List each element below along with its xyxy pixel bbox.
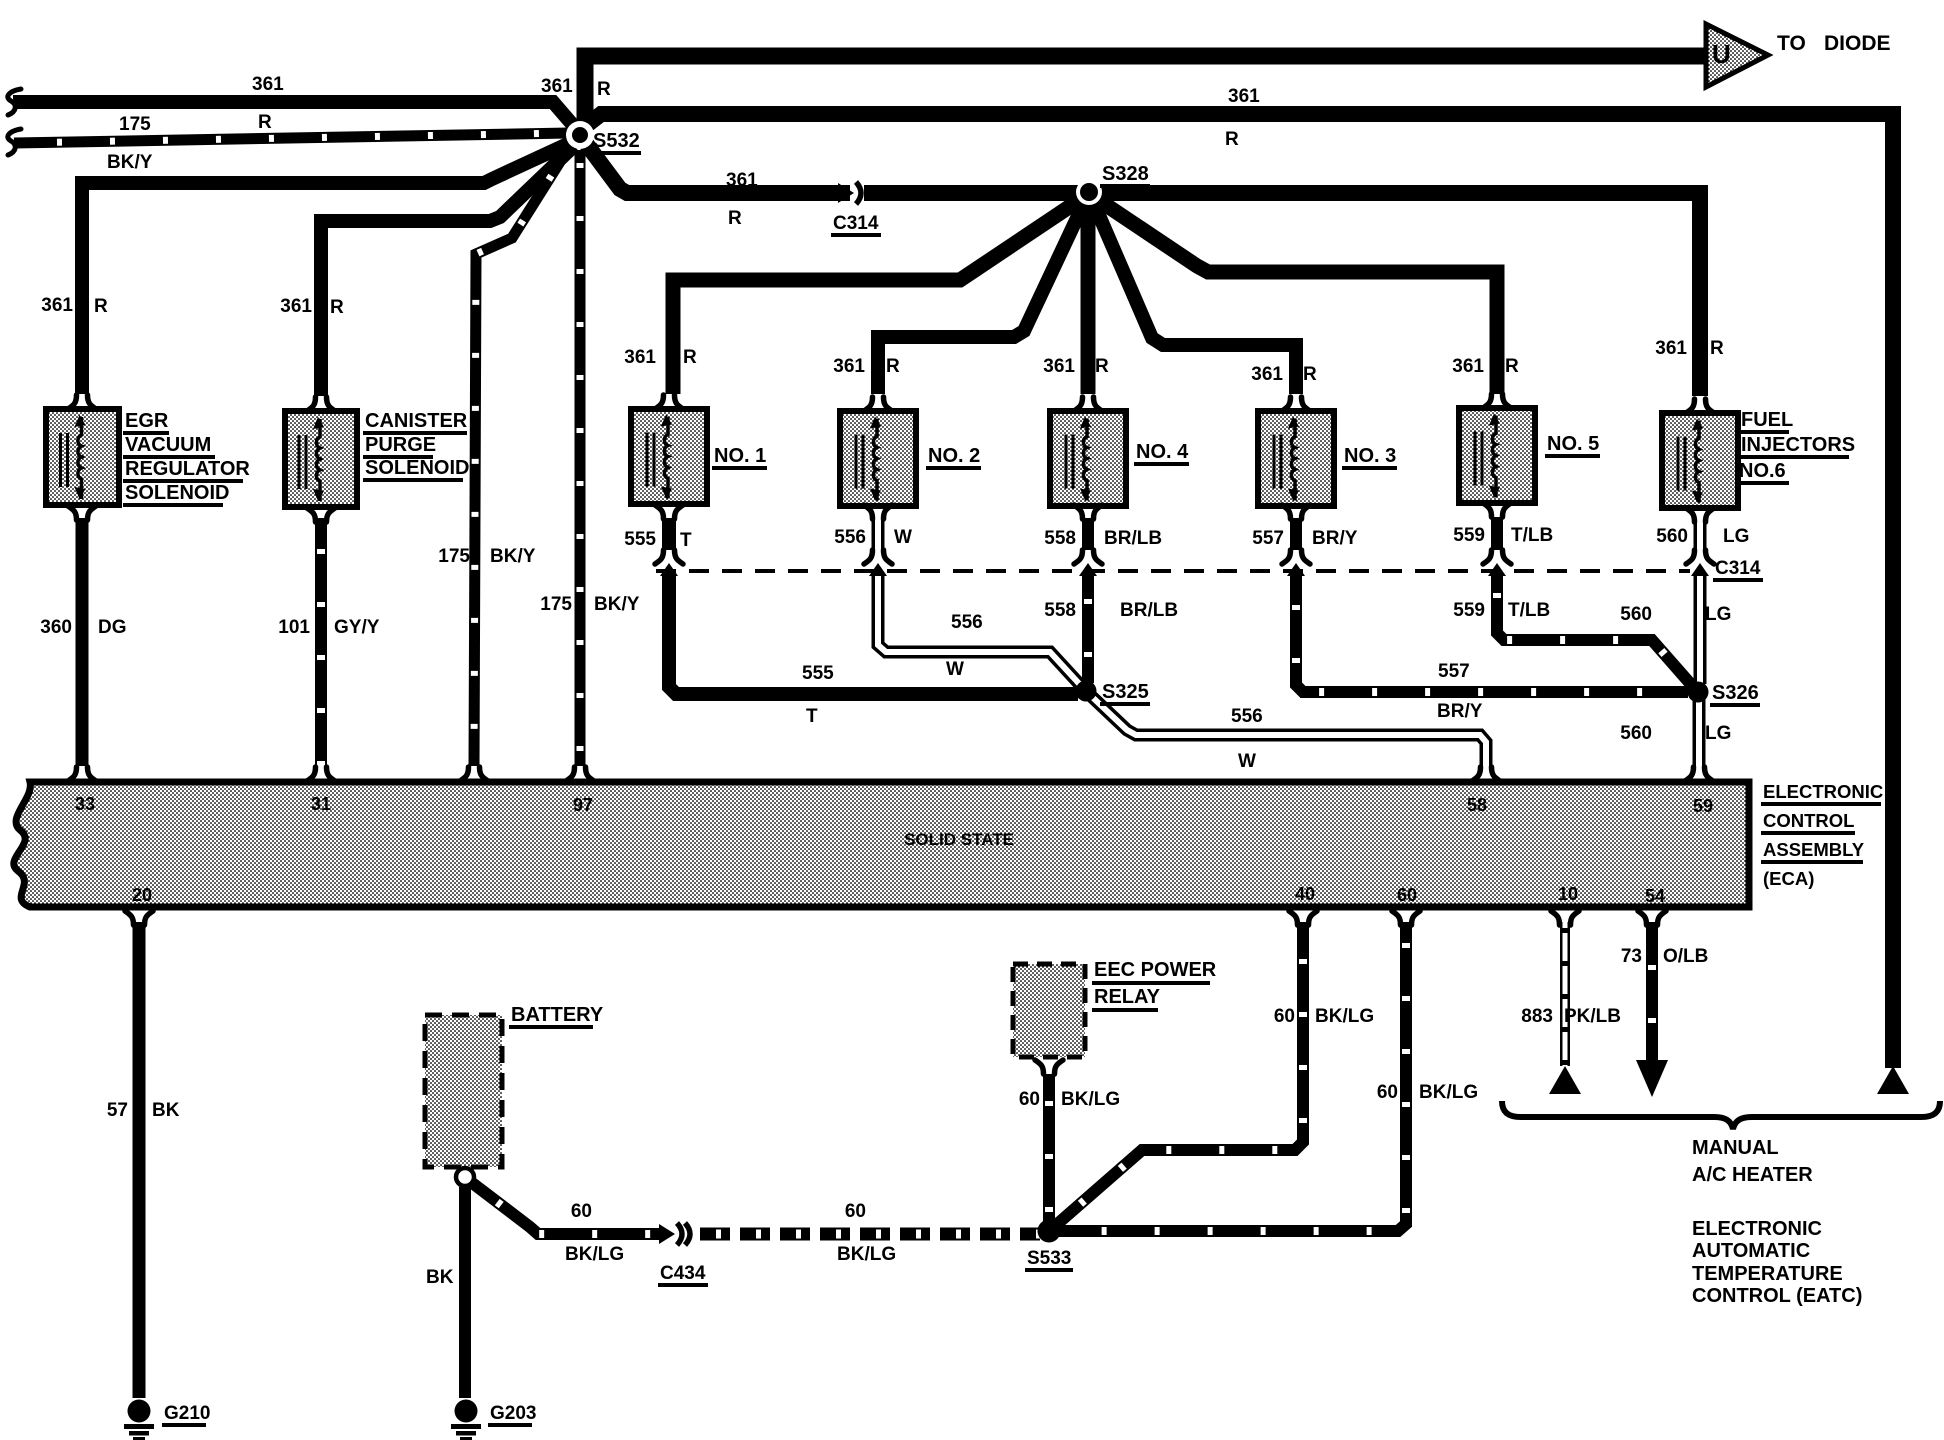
wire 361 R branch S532 to canister purge solenoid: [321, 146, 574, 396]
connector C434: [659, 1222, 690, 1246]
labels 361 R left feed: [252, 74, 284, 133]
labels 175 BK/Y on second branch: [540, 594, 639, 615]
svg-text:175: 175: [438, 546, 470, 567]
label EEC POWER RELAY: [1092, 959, 1217, 1012]
wire 60 BK/LG from ECA pin 40 to splice S533: [1055, 922, 1303, 1226]
wire 557 BR/Y upper segment below injector no.3: [1290, 518, 1302, 550]
svg-text:59: 59: [1693, 796, 1713, 816]
connector fork below EEC power relay: [1035, 1060, 1063, 1074]
svg-text:557: 557: [1252, 528, 1284, 549]
svg-text:556: 556: [1231, 706, 1263, 727]
connector fork below canister purge solenoid: [307, 508, 335, 522]
svg-text:G203: G203: [490, 1403, 536, 1424]
fuel injector no.2: [840, 411, 916, 506]
svg-text:S533: S533: [1027, 1248, 1071, 1269]
labels 555 T at injector no.1: [624, 529, 692, 551]
wire 175 BK/Y second branch from S532 straight down to ECA pin 97: [575, 150, 586, 766]
fuel injector no.1: [631, 409, 707, 504]
svg-text:361: 361: [624, 347, 656, 368]
svg-text:BK: BK: [426, 1267, 454, 1288]
labels 60 BK/LG battery segment: [565, 1201, 624, 1265]
wire 57 BK from ECA pin 20 to ground G210: [133, 922, 146, 1398]
svg-text:S532: S532: [593, 130, 640, 152]
labels 558 BR/LB on lower segment: [1044, 600, 1178, 621]
wire 560 LG from connector C314 down to splice S326: [1694, 576, 1707, 684]
svg-text:361: 361: [726, 170, 758, 191]
svg-text:W: W: [946, 659, 964, 680]
svg-text:560: 560: [1620, 604, 1652, 625]
wire 556 W upper segment below injector no.2: [872, 518, 885, 550]
svg-text:R: R: [258, 112, 272, 133]
svg-text:54: 54: [1645, 886, 1665, 906]
wire 361 R branch S328 straight down to injector no.4: [1081, 200, 1096, 394]
svg-text:40: 40: [1295, 884, 1315, 904]
svg-text:NO. 1: NO. 1: [714, 445, 766, 467]
labels 60 BK/LG at pin 40: [1274, 1006, 1374, 1027]
labels 361 R right trunk: [1225, 86, 1260, 150]
wire 556 W from connector down to splice S325: [878, 576, 1084, 689]
label NO. 3: [1342, 445, 1397, 470]
label NO. 5: [1545, 433, 1600, 458]
svg-text:S328: S328: [1102, 163, 1149, 185]
svg-text:BR/Y: BR/Y: [1437, 701, 1483, 722]
svg-text:559: 559: [1453, 600, 1485, 621]
svg-text:560: 560: [1656, 526, 1688, 547]
labels 361 R at canister feed: [280, 296, 344, 318]
arrowhead at bottom of 73 wire: [1636, 1060, 1668, 1097]
label CANISTER PURGE SOLENOID: [363, 410, 469, 482]
svg-text:T/LB: T/LB: [1511, 525, 1553, 546]
labels 175 BK/Y on first branch: [438, 546, 535, 567]
labels 101 GY/Y: [278, 617, 379, 638]
wire 361 R branch S328 to injector no.1: [673, 197, 1084, 394]
svg-text:557: 557: [1438, 661, 1470, 682]
inline connector C314 on wire 560: [1686, 550, 1714, 576]
labels 60 BK/LG dashed segment: [837, 1201, 896, 1265]
splice node S326: [1688, 682, 1709, 703]
label NO. 4: [1134, 441, 1189, 466]
svg-text:W: W: [1238, 751, 1256, 772]
svg-text:R: R: [1710, 338, 1724, 359]
svg-text:175: 175: [119, 114, 151, 135]
wire 361 R branch S532 to EGR solenoid: [82, 142, 572, 394]
connector triangle at bottom of 883 wire: [1549, 1066, 1581, 1094]
connector fork below injector no.4: [1074, 505, 1102, 519]
connector triangle at bottom of right 361 wire: [1877, 1066, 1909, 1094]
labels 361 R at injector no.1 feed: [624, 347, 697, 368]
svg-text:10: 10: [1558, 884, 1578, 904]
label S532: [591, 130, 641, 155]
svg-text:NO. 2: NO. 2: [928, 445, 980, 467]
wire 360 DG from EGR solenoid to ECA pin 33: [76, 518, 89, 766]
inline connector C314 on wire 557: [1282, 550, 1310, 576]
svg-text:LG: LG: [1723, 526, 1749, 547]
labels 559 T/LB at injector no.5: [1453, 525, 1553, 546]
connector fork at ECA bottom pin 54: [1638, 911, 1666, 925]
svg-text:SOLENOID: SOLENOID: [365, 457, 469, 479]
svg-text:60: 60: [1377, 1082, 1398, 1103]
svg-text:560: 560: [1620, 723, 1652, 744]
label S328: [1100, 163, 1150, 188]
ECA pin numbers bottom row: [132, 884, 1665, 906]
label NO. 1: [712, 445, 767, 470]
svg-text:BR/LB: BR/LB: [1120, 600, 1178, 621]
labels 555 T on horizontal run: [802, 663, 834, 727]
svg-text:EGR: EGR: [125, 410, 169, 432]
svg-text:361: 361: [833, 356, 865, 377]
label C314 on trunk: [831, 213, 881, 237]
svg-text:58: 58: [1467, 795, 1487, 815]
wire 361 R branch S328 to injector no.3: [1092, 199, 1296, 394]
svg-text:C314: C314: [833, 213, 879, 234]
svg-text:BK/LG: BK/LG: [1419, 1082, 1478, 1103]
svg-text:BATTERY: BATTERY: [511, 1004, 604, 1026]
svg-text:LG: LG: [1705, 604, 1731, 625]
labels 361 R at EGR feed: [41, 295, 108, 317]
svg-text:20: 20: [132, 885, 152, 905]
svg-text:(ECA): (ECA): [1763, 868, 1814, 889]
connector fork above EGR solenoid: [68, 395, 96, 409]
labels 557 BR/Y at injector no.3: [1252, 528, 1357, 549]
labels 60 BK/LG at pin 60: [1377, 1082, 1478, 1103]
fuel injector no.4: [1050, 411, 1126, 506]
svg-text:57: 57: [107, 1100, 128, 1121]
svg-text:TO: TO: [1777, 32, 1806, 55]
curl at left end of 175 wire: [8, 129, 21, 155]
svg-text:AUTOMATIC: AUTOMATIC: [1692, 1240, 1810, 1262]
labels 175 BK/Y left feed: [107, 114, 153, 173]
svg-text:DG: DG: [98, 617, 127, 638]
svg-text:CONTROL: CONTROL: [1763, 810, 1854, 831]
label S326: [1710, 682, 1760, 707]
wire 361 R branch S328 to injector no.2: [878, 199, 1086, 394]
svg-text:361: 361: [280, 296, 312, 317]
wire 559 T/LB from connector down and right to splice S326: [1497, 576, 1695, 689]
svg-text:BR/LB: BR/LB: [1104, 528, 1162, 549]
connector fork at ECA bottom pin 60: [1392, 911, 1420, 925]
svg-text:BK/Y: BK/Y: [594, 594, 640, 615]
connector fork above canister purge solenoid: [307, 397, 335, 411]
connector fork below injector no.5: [1483, 503, 1511, 517]
labels 558 BR/LB at injector no.4: [1044, 528, 1162, 549]
wire 361 R trunk from S532 through C314 to S328 and down to injector no.6: [582, 138, 1700, 396]
svg-text:60: 60: [571, 1201, 592, 1222]
label TO DIODE: [1777, 32, 1891, 55]
canister purge solenoid: [285, 411, 357, 507]
wire 60 BK/LG from battery node to connector C434: [471, 1182, 662, 1234]
inline connector C314 on wire 559: [1483, 550, 1511, 576]
wire 556 W from splice S325 to ECA pin 58: [1089, 694, 1486, 766]
svg-text:BK/LG: BK/LG: [565, 1244, 624, 1265]
svg-text:NO. 4: NO. 4: [1136, 441, 1189, 463]
connector fork above injector no.4: [1074, 397, 1102, 411]
ECA pin numbers top row: [75, 794, 1713, 816]
svg-text:361: 361: [1452, 356, 1484, 377]
ground G203: [451, 1400, 536, 1440]
svg-text:LG: LG: [1705, 723, 1731, 744]
dashed connector separator line C314: [656, 569, 1690, 573]
splice node S533: [1038, 1220, 1061, 1243]
labels 60 BK/LG at relay wire: [1019, 1089, 1120, 1110]
connector fork above injector no.2: [864, 397, 892, 411]
svg-text:361: 361: [1228, 86, 1260, 107]
svg-text:TEMPERATURE: TEMPERATURE: [1692, 1263, 1843, 1285]
labels 560 LG lower segment: [1620, 723, 1731, 744]
svg-text:361: 361: [1043, 356, 1075, 377]
svg-text:O/LB: O/LB: [1663, 946, 1708, 967]
connector fork at ECA top pin 58: [1472, 767, 1500, 781]
wire 555 T upper segment below injector no.1: [662, 518, 676, 550]
connector fork at ECA bottom pin 40: [1289, 911, 1317, 925]
labels 361 R at injector no.6 feed: [1655, 338, 1724, 359]
svg-text:BK/LG: BK/LG: [1315, 1006, 1374, 1027]
wire 560 LG from splice S326 down to ECA pin 59: [1693, 699, 1706, 766]
brace for manual A/C heater and EATC: [1502, 1101, 1940, 1129]
label 361 R on diode line: [541, 76, 611, 100]
svg-text:FUEL: FUEL: [1741, 409, 1793, 431]
svg-text:SOLID STATE: SOLID STATE: [904, 830, 1014, 849]
svg-text:361: 361: [252, 74, 284, 95]
svg-text:A/C HEATER: A/C HEATER: [1692, 1164, 1813, 1186]
svg-text:T: T: [680, 530, 692, 551]
svg-text:60: 60: [1019, 1089, 1040, 1110]
svg-text:R: R: [1095, 356, 1109, 377]
connector fork above injector no.5: [1483, 394, 1511, 408]
svg-text:555: 555: [802, 663, 834, 684]
label FUEL INJECTORS NO.6: [1737, 409, 1855, 485]
svg-text:R: R: [683, 347, 697, 368]
svg-text:361: 361: [1251, 364, 1283, 385]
label S325: [1100, 681, 1150, 706]
wire 361 R from left edge to S532: [13, 102, 578, 131]
fuel injector no.6: [1662, 413, 1738, 508]
svg-text:556: 556: [834, 527, 866, 548]
connector fork at ECA top unnumbered pin: [460, 767, 488, 781]
svg-text:33: 33: [75, 794, 95, 814]
svg-text:INJECTORS: INJECTORS: [1741, 434, 1855, 456]
label MANUAL A/C HEATER: [1692, 1137, 1813, 1186]
wire 558 BR/LB from connector down to splice S325: [1082, 576, 1094, 683]
svg-text:R: R: [1225, 129, 1239, 150]
connector fork below injector no.1: [655, 505, 683, 519]
svg-text:R: R: [886, 356, 900, 377]
svg-text:361: 361: [41, 295, 73, 316]
wire 175 BK/Y from left edge to S532: [14, 133, 569, 143]
svg-text:R: R: [94, 296, 108, 317]
inline connector C314 on wire 556: [864, 550, 892, 576]
wire 361 R from S532 right to corner and down right edge: [583, 114, 1893, 1068]
svg-text:175: 175: [540, 594, 572, 615]
svg-text:NO.6: NO.6: [1739, 460, 1786, 482]
svg-text:CONTROL (EATC): CONTROL (EATC): [1692, 1285, 1862, 1307]
ground G210: [124, 1400, 210, 1440]
wire 175 BK/Y first branch from S532 down to ECA: [474, 146, 570, 766]
svg-text:361: 361: [541, 76, 573, 97]
svg-text:W: W: [894, 527, 912, 548]
labels 556 W at injector no.2: [834, 527, 912, 548]
label C434: [658, 1263, 708, 1287]
labels 361 R at injector no.3 feed: [1251, 364, 1317, 385]
svg-text:558: 558: [1044, 528, 1076, 549]
labels 361 R on trunk to C314: [726, 170, 758, 229]
svg-text:SOLENOID: SOLENOID: [125, 482, 229, 504]
dashed wire 60 BK/LG from C434 to splice S533: [700, 1228, 1040, 1241]
svg-text:NO. 5: NO. 5: [1547, 433, 1599, 455]
wire 560 LG upper segment below injector no.6: [1694, 520, 1707, 550]
label ELECTRONIC CONTROL ASSEMBLY (ECA): [1761, 781, 1883, 889]
svg-text:73: 73: [1621, 946, 1642, 967]
connector fork at ECA top pin 33: [68, 767, 96, 781]
svg-text:PURGE: PURGE: [365, 434, 436, 456]
svg-text:559: 559: [1453, 525, 1485, 546]
labels 559 T/LB on jog segment: [1453, 600, 1550, 621]
labels 883 PK/LB: [1521, 1006, 1621, 1027]
connector fork below injector no.2: [864, 505, 892, 519]
svg-text:C434: C434: [660, 1263, 706, 1284]
wire 558 BR/LB upper segment below injector no.4: [1082, 518, 1094, 550]
labels 361 R at injector no.5 feed: [1452, 356, 1519, 377]
label C314 at injector no.6 connector: [1713, 558, 1763, 582]
labels 560 LG middle segment: [1620, 604, 1731, 625]
labels 560 LG at injector no.6: [1656, 526, 1749, 547]
splice node S328: [1076, 179, 1102, 205]
svg-text:R: R: [1303, 364, 1317, 385]
connector fork above injector no.1: [655, 395, 683, 409]
svg-text:PK/LB: PK/LB: [1564, 1006, 1621, 1027]
svg-text:60: 60: [1397, 885, 1417, 905]
svg-text:G210: G210: [164, 1403, 210, 1424]
battery box: [425, 1015, 502, 1167]
svg-text:NO. 3: NO. 3: [1344, 445, 1396, 467]
fuel injector no.5: [1459, 408, 1535, 503]
svg-text:S325: S325: [1102, 681, 1149, 703]
svg-text:ELECTRONIC: ELECTRONIC: [1692, 1218, 1822, 1240]
svg-text:97: 97: [573, 795, 593, 815]
labels 556 W on jog segment: [946, 612, 983, 680]
connector fork above injector no.6: [1686, 399, 1714, 413]
battery terminal node: [456, 1168, 474, 1186]
svg-text:BK/Y: BK/Y: [107, 152, 153, 173]
svg-text:C314: C314: [1715, 558, 1761, 579]
label EGR VACUUM REGULATOR SOLENOID: [123, 410, 250, 507]
labels 57 BK: [107, 1100, 180, 1121]
connector fork at ECA bottom pin 10: [1551, 911, 1579, 925]
svg-text:R: R: [597, 79, 611, 100]
labels 361 R at injector no.2 feed: [833, 356, 900, 377]
svg-text:BK/Y: BK/Y: [490, 546, 536, 567]
svg-text:31: 31: [311, 794, 331, 814]
electronic control assembly ECA box with solid state label: [14, 782, 1749, 907]
svg-text:T: T: [806, 706, 818, 727]
connector fork at ECA top pin 59: [1685, 767, 1713, 781]
svg-text:CANISTER: CANISTER: [365, 410, 468, 432]
connector fork at ECA top pin 31: [307, 767, 335, 781]
svg-text:60: 60: [845, 1201, 866, 1222]
labels 556 W on run to ECA pin 58: [1231, 706, 1263, 772]
wire 60 BK/LG from ECA pin 60 down and left to splice S533: [1058, 922, 1406, 1231]
svg-text:EEC POWER: EEC POWER: [1094, 959, 1217, 981]
splice node S325: [1076, 681, 1097, 702]
splice node S532: [566, 121, 594, 149]
svg-text:BK/LG: BK/LG: [837, 1244, 896, 1265]
svg-text:558: 558: [1044, 600, 1076, 621]
svg-text:MANUAL: MANUAL: [1692, 1137, 1779, 1159]
svg-text:361: 361: [1655, 338, 1687, 359]
inline connector C314 on wire 555: [655, 550, 683, 576]
connector fork at ECA top pin 97: [566, 767, 594, 781]
label NO. 2: [926, 445, 981, 470]
wire 60 BK/LG from EEC power relay to splice S533: [1043, 1074, 1055, 1222]
svg-text:T/LB: T/LB: [1508, 600, 1550, 621]
wire 361 R to diode, top horizontal with drop to S532: [585, 56, 1710, 128]
labels 557 BR/Y on horizontal run: [1437, 661, 1483, 722]
svg-text:R: R: [1505, 356, 1519, 377]
connector fork below EGR solenoid: [68, 506, 96, 520]
svg-text:GY/Y: GY/Y: [334, 617, 380, 638]
labels 73 O/LB: [1621, 946, 1709, 967]
curl at left end of 361 wire: [8, 89, 21, 115]
svg-text:U: U: [1712, 39, 1731, 69]
svg-text:BR/Y: BR/Y: [1312, 528, 1358, 549]
svg-text:BK: BK: [152, 1100, 180, 1121]
wire 555 T from connector down and right to splice S325: [669, 576, 1078, 694]
wire 73 O/LB from ECA pin 54 with down arrow: [1646, 922, 1658, 1062]
connector fork below injector no.6: [1686, 508, 1714, 522]
label BATTERY: [509, 1004, 604, 1029]
wire 361 R branch S328 to injector no.5: [1094, 197, 1497, 394]
EEC power relay box: [1013, 964, 1085, 1057]
svg-text:R: R: [330, 297, 344, 318]
connector fork at ECA bottom pin 20: [125, 911, 153, 925]
svg-text:60: 60: [1274, 1006, 1295, 1027]
svg-text:555: 555: [624, 529, 656, 550]
fuel injector no.3: [1258, 411, 1334, 506]
svg-text:R: R: [728, 208, 742, 229]
svg-text:360: 360: [40, 617, 72, 638]
wire 559 T/LB upper segment below injector no.5: [1491, 517, 1503, 550]
svg-text:101: 101: [278, 617, 310, 638]
wire 883 PK/LB from ECA pin 10 to manual A/C heater: [1560, 922, 1570, 1066]
wire BK from battery to ground G203: [459, 1187, 471, 1398]
svg-text:883: 883: [1521, 1006, 1553, 1027]
labels 360 DG: [40, 617, 126, 638]
svg-text:REGULATOR: REGULATOR: [125, 458, 250, 480]
svg-text:556: 556: [951, 612, 983, 633]
svg-text:DIODE: DIODE: [1824, 32, 1891, 55]
label S533: [1025, 1248, 1073, 1272]
inline connector C314 on wire 558: [1074, 550, 1102, 576]
svg-text:BK/LG: BK/LG: [1061, 1089, 1120, 1110]
to-diode arrow symbol: [1706, 24, 1768, 87]
label ELECTRONIC AUTOMATIC TEMPERATURE CONTROL (EATC): [1692, 1218, 1862, 1307]
labels 361 R at injector no.4 feed: [1043, 356, 1109, 377]
svg-text:S326: S326: [1712, 682, 1759, 704]
svg-text:RELAY: RELAY: [1094, 986, 1161, 1008]
connector C314 on trunk wire: [838, 181, 864, 205]
svg-text:ASSEMBLY: ASSEMBLY: [1763, 839, 1865, 860]
connector fork below injector no.3: [1282, 505, 1310, 519]
svg-text:VACUUM: VACUUM: [125, 434, 211, 456]
svg-text:ELECTRONIC: ELECTRONIC: [1763, 781, 1883, 802]
wire 101 GY/Y from canister purge solenoid to ECA pin 31: [315, 518, 327, 766]
wire 557 BR/Y from connector down and right to splice S326: [1296, 576, 1688, 692]
EGR vacuum regulator solenoid: [46, 409, 119, 505]
connector fork above injector no.3: [1282, 397, 1310, 411]
